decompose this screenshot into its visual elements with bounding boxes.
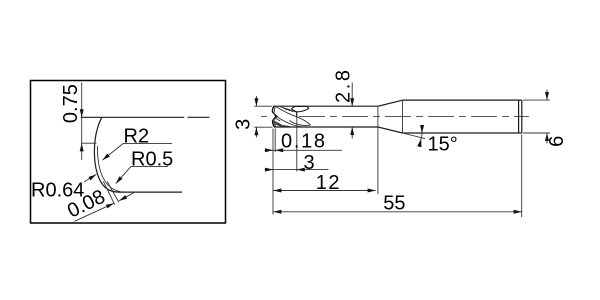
- extension line 0.18 offset x=274.8: [274, 129, 276, 153]
- node taper top: [378, 100, 403, 106]
- svg-text:R2: R2: [124, 126, 150, 148]
- node taper bottom: [378, 127, 403, 133]
- node upper spiral curve big: [276, 107, 311, 126]
- extension line from tip x=272.3: [272, 129, 274, 215]
- node head top edge: [274, 105, 378, 107]
- angle arc: [418, 125, 422, 146]
- node lower big curve 2: [273, 121, 290, 127]
- node upper spiral curve small: [280, 106, 297, 112]
- extension line flute end x=296.8: [296, 117, 298, 172]
- centerline: [261, 115, 267, 117]
- taper line extended: [403, 133, 426, 139]
- node band hatches: [283, 108, 293, 112]
- node tip left edge with dish: [272, 106, 276, 127]
- extension lines for 0.08: [103, 182, 119, 205]
- svg-text:0.18: 0.18: [281, 131, 327, 153]
- extension line taper end x=377.9: [377, 107, 379, 194]
- extension line shank end x=521.7: [521, 135, 523, 218]
- node R2 profile outer curve: [94, 117, 121, 192]
- svg-text:6: 6: [546, 136, 568, 147]
- wire top surface line of detail: [81, 116, 210, 118]
- node shank top: [403, 99, 522, 101]
- node tip second facet line: [273, 106, 277, 127]
- svg-text:3: 3: [233, 119, 255, 130]
- wire bottom surface line of detail: [122, 191, 183, 193]
- node lower leaf return edge: [289, 121, 310, 126]
- svg-text:0.75: 0.75: [60, 84, 82, 123]
- node shank bottom: [403, 132, 522, 134]
- node shank end faces: [519, 100, 522, 133]
- node offset curve (0.08 gap): [97, 146, 120, 192]
- node head bottom edge: [274, 126, 378, 128]
- svg-text:3: 3: [304, 152, 315, 174]
- svg-text:2.8: 2.8: [333, 67, 355, 103]
- node lower hatches: [273, 119, 285, 127]
- node taper shank junction: [402, 100, 404, 133]
- node top gash leaf: [292, 106, 309, 112]
- svg-text:15°: 15°: [428, 134, 458, 156]
- svg-text:R0.5: R0.5: [131, 148, 173, 170]
- svg-text:55: 55: [383, 192, 405, 214]
- node flute end edge: [296, 112, 298, 117]
- node lower big curve 1: [276, 116, 303, 127]
- detail view border box: [31, 81, 226, 224]
